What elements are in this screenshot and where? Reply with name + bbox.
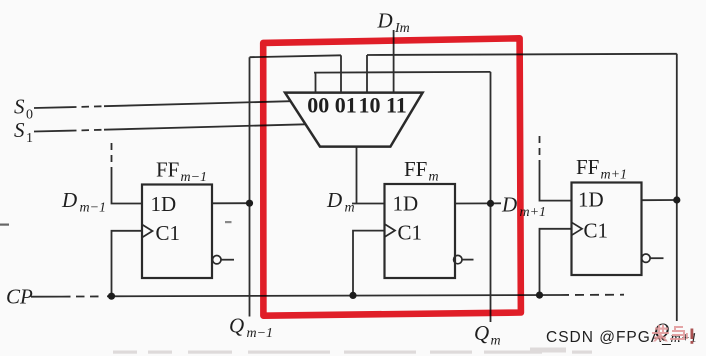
svg-text:m−1: m−1 [181,170,208,185]
svg-text:00: 00 [307,93,329,118]
svg-text:C1: C1 [398,221,423,245]
svg-text:m−1: m−1 [80,201,107,216]
svg-text:m: m [345,201,355,216]
svg-text:S: S [14,118,25,142]
svg-text:FF: FF [404,157,427,181]
svg-text:10: 10 [359,93,381,118]
svg-text:D: D [326,188,342,212]
svg-text:11: 11 [386,93,407,118]
svg-text:D: D [377,9,393,33]
svg-text:m+1: m+1 [601,168,628,183]
svg-text:Q: Q [229,314,244,338]
svg-text:C1: C1 [584,219,609,243]
svg-text:1D: 1D [151,192,177,216]
svg-text:C1: C1 [156,221,181,245]
svg-text:1D: 1D [393,192,419,216]
svg-text:01: 01 [335,93,357,118]
svg-text:m−1: m−1 [247,326,274,341]
svg-text:1D: 1D [578,188,604,212]
svg-text:0: 0 [26,108,33,123]
svg-text:m: m [491,334,501,349]
svg-text:Q: Q [474,321,489,345]
svg-text:FF: FF [576,155,599,179]
svg-text:S: S [14,95,25,119]
svg-text:CSDN @FPGA_: CSDN @FPGA_ [546,329,672,346]
svg-text:CP: CP [6,285,33,309]
svg-text:FF: FF [156,158,179,182]
svg-text:1: 1 [26,131,33,146]
svg-text:D: D [61,188,77,212]
svg-text:D: D [501,193,517,217]
svg-text:Im: Im [394,21,410,36]
svg-text:m: m [429,170,439,185]
